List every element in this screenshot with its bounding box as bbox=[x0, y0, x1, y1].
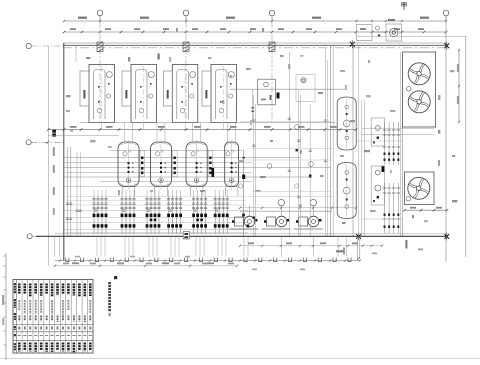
dimension line D-bottom2 bbox=[54, 262, 238, 267]
valve manifold M4 bbox=[167, 196, 182, 234]
label rotated right bbox=[405, 240, 407, 249]
manifold right M-R2 bbox=[383, 183, 400, 233]
pump suction header bbox=[240, 210, 332, 212]
sensor circle CU2 bbox=[406, 197, 410, 201]
valve circle mid-3 bbox=[309, 162, 314, 167]
pipe vertical x=289.3 bbox=[288, 52, 290, 236]
grid bubble row-A bbox=[26, 43, 64, 48]
grid bubble row-C bbox=[27, 234, 38, 239]
pipe manifold horizontal thin y=196.5 bbox=[66, 196, 246, 198]
vessel V2 bbox=[151, 140, 172, 196]
pipe horizontal y=186.5 bbox=[64, 186, 240, 188]
pipe horizontal y=162.5 bbox=[64, 162, 252, 164]
wall vertical pair x=331 bbox=[331, 46, 334, 236]
dimension line D-right vertical bbox=[457, 49, 460, 123]
pipe pair below wall x=357.5 bbox=[357, 237, 360, 260]
pipe header right y=134 bbox=[362, 134, 434, 136]
equipment unit R6 bbox=[296, 75, 315, 102]
wall vertical x=359 bbox=[358, 46, 360, 236]
title vertical text bbox=[108, 282, 111, 316]
anchor mark bottom wall mid bbox=[356, 232, 361, 240]
vessel V4 bbox=[225, 140, 239, 196]
wall left vertical x=64 bbox=[63, 43, 65, 261]
valve circle mid-5 bbox=[295, 184, 299, 188]
label elevation rotated bbox=[53, 147, 55, 156]
wall stub x=76 bbox=[75, 46, 77, 62]
valve stack between vessels 3 bbox=[208, 151, 213, 177]
parts table grid bbox=[13, 280, 93, 354]
valve circle mid-4 bbox=[239, 184, 243, 188]
title mark square bbox=[114, 276, 117, 279]
pipe header right y=219 bbox=[362, 218, 402, 220]
pipe vertical x=300.4 bbox=[299, 95, 301, 236]
line row-B header bbox=[48, 135, 119, 137]
valve circle mid-1 bbox=[295, 125, 300, 130]
dimension line D-top1 with ticks and labels bbox=[63, 17, 447, 23]
wall vertical pair x=401 bbox=[401, 52, 403, 236]
vessel V1 bbox=[118, 140, 139, 196]
pipe stubs vessel-to-manifold bbox=[94, 190, 227, 196]
grid line axis-4 vertical bbox=[445, 16, 447, 262]
valve dot mid-1 bbox=[296, 149, 298, 151]
section flag 1-1 bbox=[402, 2, 407, 10]
label rotated mid bbox=[343, 248, 345, 255]
fan F2 bbox=[408, 91, 430, 113]
parts table contents bbox=[14, 283, 92, 352]
pipe header right y=141 bbox=[356, 140, 402, 142]
pump P2 bbox=[262, 206, 291, 230]
baseline under equipment bbox=[80, 122, 335, 124]
tag circle pump P3 bbox=[310, 199, 316, 205]
label box mid-bottom bbox=[183, 232, 189, 240]
pipe pair left x=77 bbox=[77, 152, 80, 236]
valve manifold M3 bbox=[145, 196, 160, 234]
valve circle mid-2 bbox=[267, 164, 272, 169]
pipe horizontal y=181.5 bbox=[100, 181, 252, 183]
valve squares under V4 bbox=[242, 214, 249, 228]
valve dot mid-3 bbox=[253, 217, 255, 219]
pipe faint horizontal y=121.5 bbox=[240, 121, 332, 123]
pipe manifold horizontal thin y=200.5 bbox=[66, 200, 246, 202]
valve manifold M1 bbox=[92, 196, 107, 234]
equipment unit R2 (chiller) bbox=[122, 65, 157, 123]
flange ticks left pipes bbox=[66, 203, 82, 219]
valve stack right of V4 bbox=[242, 150, 245, 236]
sensor circle CU1 bbox=[407, 87, 411, 91]
scattered small annotation texture bbox=[66, 28, 457, 224]
column hatch col-1 bbox=[97, 42, 103, 52]
label HB dark bbox=[52, 130, 56, 137]
valve manifold M6 bbox=[214, 196, 229, 234]
dimension line D-bottom1 bbox=[55, 259, 361, 261]
flange ticks mid pipes bbox=[252, 118, 327, 207]
pipe faint horizontal y=160.0 bbox=[240, 159, 330, 161]
pipe manifold horizontal thin y=205.0 bbox=[66, 204, 246, 206]
column hatch col-3 bbox=[269, 42, 275, 52]
grid bubble row-B bbox=[26, 140, 66, 145]
grid bubble axis-3 bbox=[269, 10, 275, 21]
grid bubble axis-2 bbox=[183, 10, 189, 21]
label left rotated 3 bbox=[53, 208, 55, 215]
pipe manifold horizontal y=217.8 bbox=[64, 217, 248, 219]
grid bubble axis-4 bbox=[443, 10, 449, 21]
wall vertical x=353 bbox=[352, 43, 354, 236]
fan F3 bbox=[408, 177, 430, 199]
tank T2 bbox=[337, 163, 356, 219]
pipe faint horizontal y=191.5 bbox=[252, 191, 330, 193]
grid line axis-3 vertical bbox=[271, 21, 273, 124]
label N5 bbox=[158, 54, 160, 60]
pipe faint horizontal y=148.5 bbox=[252, 148, 332, 150]
pipe vertical x=253.8 bbox=[253, 95, 255, 236]
valve stack between vessels 1 bbox=[140, 151, 145, 177]
pipe horizontal y=167.5 bbox=[64, 167, 330, 169]
line upper-right header bbox=[356, 35, 466, 37]
dimension line D-bottom3 bbox=[239, 242, 383, 247]
anchor mark top wall left bbox=[350, 40, 355, 48]
pipe header y=89 bbox=[230, 88, 345, 90]
column hatch col-2 bbox=[183, 42, 189, 52]
label vertical dark at V4 bbox=[212, 168, 215, 177]
wall bottom thick bbox=[36, 235, 447, 237]
pipe drops below wall bbox=[55, 237, 347, 257]
tank T1 bbox=[337, 97, 356, 150]
dimension line D-mid with ticks bbox=[47, 126, 357, 131]
tag circle pump P2 bbox=[278, 199, 284, 205]
pipe faint horizontal y=196.5 bbox=[248, 196, 332, 198]
label left rotated 1 bbox=[53, 165, 55, 173]
manifold right M-R1 bbox=[383, 122, 400, 165]
pipe stubs rect-to-vessel bbox=[125, 123, 236, 143]
label one-half bbox=[336, 250, 343, 252]
skid unit S2 bbox=[371, 166, 384, 205]
dimension line D-fan3 bbox=[403, 207, 448, 212]
equipment unit R4 (chiller) bbox=[202, 65, 237, 123]
pipe header right y=128 bbox=[362, 127, 434, 129]
pump group top-right P-A bbox=[357, 19, 402, 41]
pipe horizontal y=177 bbox=[64, 176, 310, 178]
fan F1 bbox=[408, 63, 430, 85]
equipment unit R3 (chiller) bbox=[163, 65, 198, 123]
label N7 dark bbox=[277, 93, 280, 99]
anchor mark top wall right bbox=[444, 42, 449, 50]
label left rotated 2 bbox=[53, 187, 55, 195]
flange pair on header bbox=[252, 89, 255, 122]
sheet edge line bbox=[0, 358, 480, 360]
valve dot mid-2 bbox=[309, 175, 311, 177]
pipe horizontal y=150.5 bbox=[110, 150, 242, 152]
anchor mark bottom wall right bbox=[444, 232, 449, 240]
vessel V3 bbox=[186, 140, 207, 196]
pipe pair x=362 bbox=[362, 100, 365, 236]
pipe manifold horizontal y=229.5 bbox=[64, 229, 248, 231]
equipment unit R5 bbox=[258, 79, 276, 105]
pipe vertical x=298.7 bbox=[298, 90, 300, 236]
grid bubble axis-1 bbox=[97, 10, 103, 21]
left ruler edge bbox=[2, 253, 6, 360]
pump P3 bbox=[294, 206, 323, 230]
dimension line D-top2 with bay ticks bbox=[63, 28, 448, 33]
cooling unit enclosure CU2 bbox=[405, 172, 435, 205]
valve stack between vessels 2 bbox=[173, 151, 178, 177]
pipe vertical x=310.2 bbox=[309, 104, 311, 236]
wall bottom thin companion bbox=[55, 233, 447, 235]
line left vertical x=48 bbox=[47, 46, 49, 266]
pipe vertical x=327.2 bbox=[326, 60, 328, 236]
skid unit S1 bbox=[371, 118, 384, 146]
cooling unit enclosure CU1 bbox=[403, 52, 436, 127]
valve manifold M5 bbox=[192, 196, 207, 234]
valve manifold M2 bbox=[120, 196, 135, 234]
pump P1 bbox=[230, 206, 259, 230]
dimension line D-pump bbox=[239, 207, 357, 209]
wall top double line bbox=[63, 43, 447, 48]
pipe supports row bbox=[66, 258, 351, 262]
pipe horizontal y=172.5 bbox=[66, 172, 252, 174]
frame vertical right x=466 bbox=[465, 36, 467, 257]
equipment unit R1 (chiller) bbox=[80, 65, 115, 123]
pipe pair left x=67 bbox=[68, 147, 71, 236]
labels right bottom bbox=[252, 249, 423, 271]
pipe manifold horizontal y=222.5 bbox=[64, 222, 248, 224]
labels bottom dims bbox=[63, 256, 234, 265]
grid line axis-1 vertical bbox=[99, 21, 101, 124]
pipe vertical x=325.4 bbox=[324, 48, 326, 236]
label N8 dark bbox=[382, 166, 385, 172]
pipe horizontal y=157.5 bbox=[64, 157, 300, 159]
grid line axis-2 vertical bbox=[185, 21, 187, 124]
pipe manifold horizontal y=232.8 bbox=[64, 232, 248, 234]
pipe manifold horizontal y=210.5 bbox=[64, 210, 248, 212]
pipe vertical x=255.5 bbox=[255, 104, 257, 236]
stubs rect centers bbox=[102, 123, 224, 130]
